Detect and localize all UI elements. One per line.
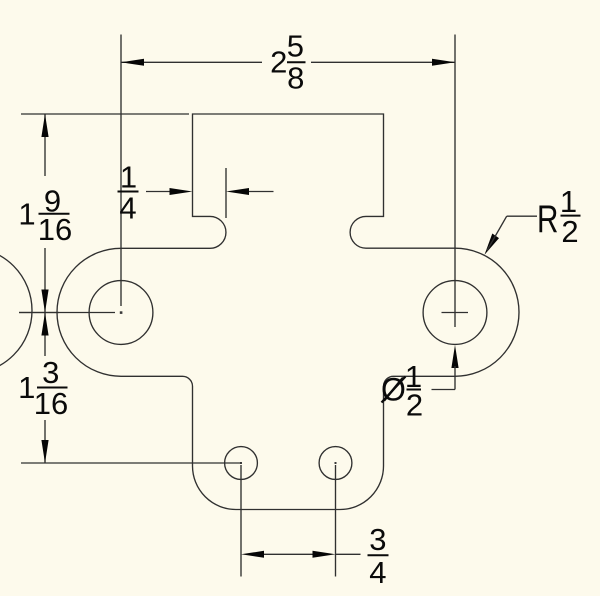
dimension 1 9/16: vertical line upper segment (44, 114, 46, 176)
center dot: bottom-left small hole (240, 462, 242, 464)
leader Ø 1/2: arrowhead (points up) (451, 345, 458, 368)
leader Ø 1/2: horizontal segment (432, 389, 456, 391)
dimension 2 5/8: line right segment (311, 61, 455, 63)
svg-text:3: 3 (369, 522, 386, 557)
text R 1/2 (537, 184, 581, 249)
extension line: top edge extended left (21, 113, 189, 115)
hole: bottom-right small (319, 447, 352, 480)
arrowhead 3/4 left (points left) (241, 551, 264, 558)
text 3/4 (368, 522, 389, 590)
dimension 1/4: left leader line (146, 191, 171, 193)
svg-text:R: R (537, 198, 558, 241)
text 2 5/8 (270, 29, 305, 96)
extension line: below bottom-left small hole (240, 465, 242, 577)
svg-text:5: 5 (287, 29, 304, 64)
arrowhead 2 5/8 left (121, 59, 144, 66)
arrowhead 1/4 right (points left) (226, 188, 249, 195)
extension line: bottom (1 3/16 lower reference) (21, 462, 241, 464)
arrowhead 1 9/16 bottom (down) (41, 290, 48, 313)
dimension 1/4: right leader line (249, 191, 274, 193)
leader R 1/2: horizontal segment (507, 215, 537, 217)
centerline: left hole horizontal (19, 312, 115, 314)
text 1 9/16 (18, 184, 72, 247)
centerline: right hole vertical (also 2 5/8 extension) (454, 35, 456, 328)
svg-text:8: 8 (287, 60, 304, 95)
leader R 1/2: arrowhead (485, 234, 500, 255)
arrowhead 3/4 right (points right) (313, 551, 336, 558)
dimension 2 5/8: line left segment (121, 61, 262, 63)
leader R 1/2: diagonal segment (487, 216, 507, 250)
hole: right large (Ø 1/2) (423, 281, 487, 345)
dimension 1 3/16: vertical line lower segment (44, 420, 46, 463)
dimension 1 3/16: vertical line upper segment (44, 313, 46, 357)
svg-text:2: 2 (406, 388, 423, 423)
svg-text:16: 16 (34, 386, 68, 421)
svg-text:3: 3 (42, 355, 59, 390)
extension line: hole-center level (left) (19, 312, 59, 314)
svg-text:2: 2 (561, 214, 578, 249)
center dot: left hole (120, 311, 123, 314)
arrowhead 1/4 left (points right) (170, 188, 193, 195)
hole: bottom-left small (225, 447, 258, 480)
extension line: below bottom-right small hole (335, 465, 337, 577)
leader Ø 1/2: vertical segment (454, 366, 456, 390)
svg-text:2: 2 (270, 45, 287, 80)
arrowhead 1 3/16 top (up) (41, 313, 48, 336)
centerline: right hole horizontal tick (442, 312, 469, 314)
dimension 1 9/16: vertical line lower segment (44, 248, 46, 313)
centerline: left hole vertical (also 2 5/8 extension) (120, 35, 122, 307)
dimension 1/4: extension line at notch (225, 168, 227, 218)
arrowhead 2 5/8 right (432, 59, 455, 66)
svg-text:4: 4 (119, 191, 136, 226)
center dot: bottom-right small hole (335, 462, 337, 464)
svg-text:4: 4 (369, 555, 386, 590)
arrowhead 1 3/16 bottom (down) (41, 440, 48, 463)
text 1/4 (118, 160, 139, 226)
svg-text:1: 1 (18, 197, 35, 232)
part outline (bracket profile) (57, 114, 519, 510)
hole: left large (Ø 1/2) (89, 281, 153, 345)
arrowhead 1 9/16 top (up) (41, 114, 48, 137)
dimension 3/4: line (263, 553, 313, 555)
text Ø 1/2 (381, 359, 423, 423)
svg-text:16: 16 (38, 212, 72, 247)
svg-text:1: 1 (120, 160, 137, 195)
text 1 3/16 (18, 355, 68, 421)
dimension 3/4: line extra right (336, 553, 361, 555)
partial arc at left image edge (0, 248, 32, 374)
